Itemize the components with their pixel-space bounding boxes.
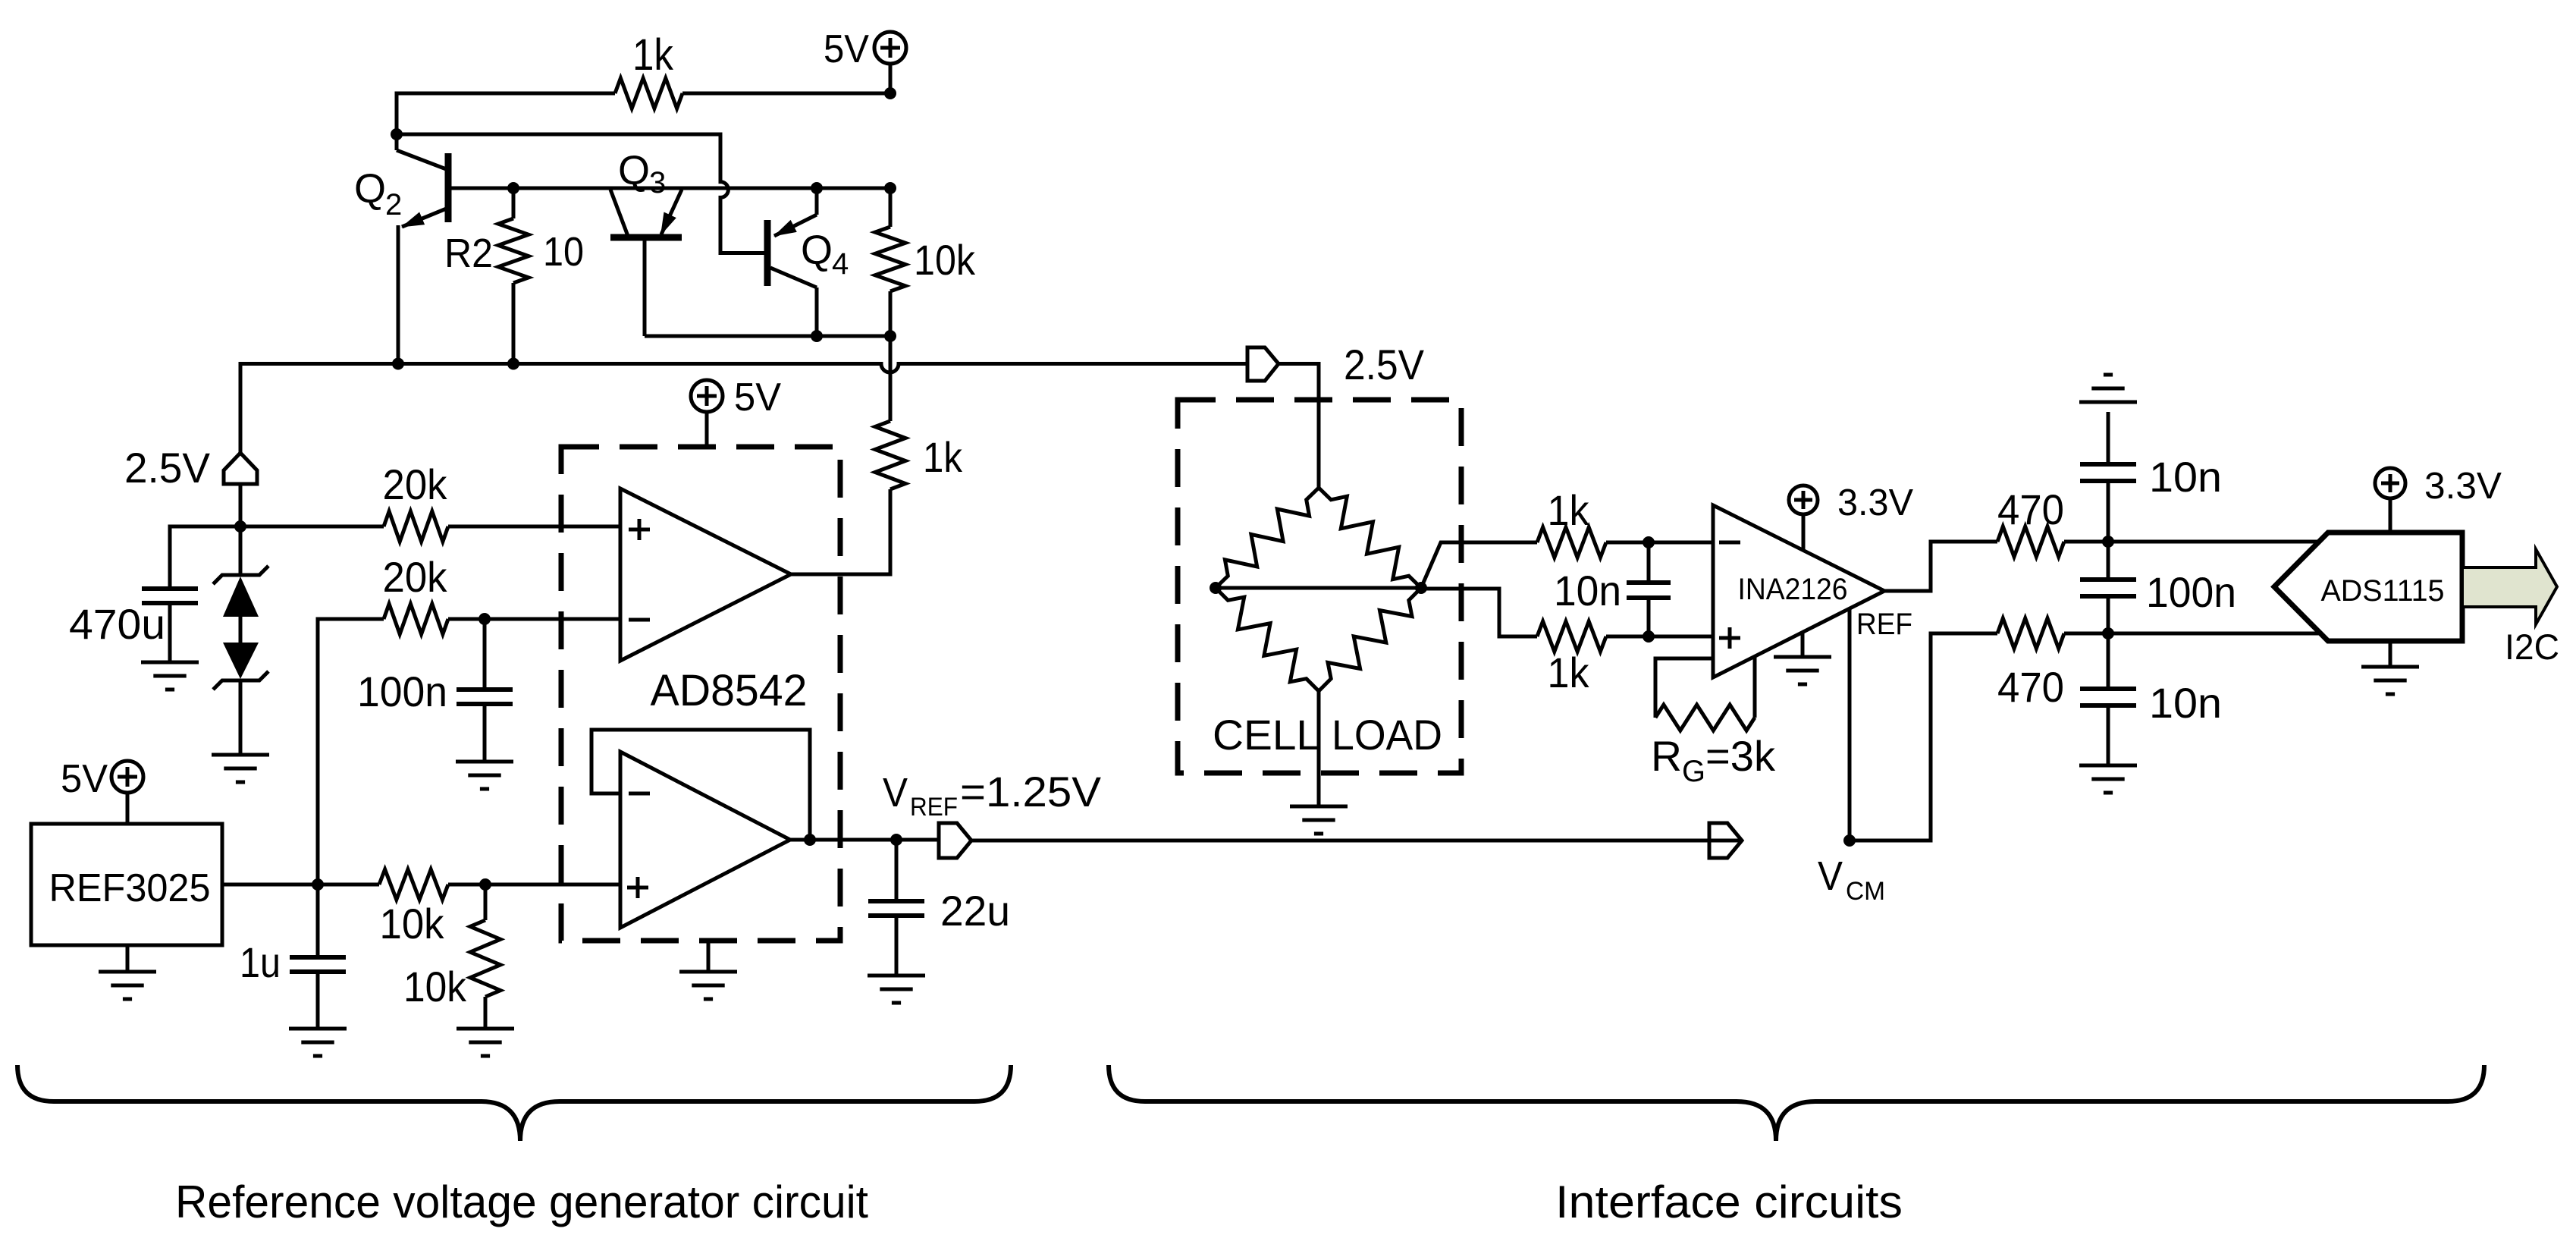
svg-text:10n: 10n — [2149, 679, 2222, 727]
ground (bridge) — [1317, 691, 1321, 806]
svg-text:22u: 22u — [940, 887, 1010, 935]
wire bridge -sense — [1421, 589, 1537, 636]
svg-text:1k: 1k — [632, 30, 674, 80]
wire top row to ADS — [2064, 540, 2320, 544]
wire U2 feedback loop — [591, 730, 810, 840]
node VCM flag — [1709, 823, 1742, 858]
svg-text:R: R — [1651, 732, 1682, 780]
wire 20k+ left lead — [240, 525, 384, 529]
wire 10k to 1k resistor through rail — [889, 336, 893, 421]
node U2 feedback junction — [804, 834, 816, 846]
wire bridge +sense diagonal — [1421, 542, 1537, 588]
svg-text:5V: 5V — [61, 757, 108, 801]
node 2.5V flag (bridge) — [1247, 347, 1279, 381]
wire Q2 emitter drop — [397, 225, 400, 364]
wire base rail y=248 — [448, 187, 890, 190]
wire to INA+ — [1606, 635, 1713, 639]
resistor 1k (bottom sense) — [1537, 621, 1606, 652]
wire REF3025 output — [222, 883, 379, 887]
power 5V supply (top) — [874, 32, 906, 64]
svg-text:CELL: CELL — [1213, 711, 1320, 759]
wire 1k bottom lead to op-amp U1 output — [791, 489, 890, 574]
node 10k bottom junction — [884, 330, 896, 342]
svg-text:2: 2 — [385, 188, 402, 222]
svg-text:CM: CM — [1846, 877, 1885, 906]
node 2.5V flag (left) — [224, 453, 257, 484]
wire 5V to box — [705, 412, 709, 447]
svg-text:20k: 20k — [383, 553, 448, 601]
IC REF3025 — [31, 824, 222, 945]
node 10n bottom — [1643, 630, 1655, 643]
wire VREF bus — [971, 839, 1709, 843]
svg-text:Q: Q — [354, 166, 386, 212]
ground (470u) — [141, 661, 199, 665]
svg-text:470: 470 — [1997, 663, 2064, 711]
resistor 10k (pull-up) — [889, 188, 893, 227]
wire Q4 emitter stem — [815, 188, 819, 215]
svg-text:5V: 5V — [734, 375, 781, 419]
arrow I2C output — [2462, 549, 2557, 624]
svg-text:AD8542: AD8542 — [651, 666, 808, 715]
ground (10k divider) — [457, 1027, 514, 1031]
wire VCM to 470 — [1709, 839, 1742, 843]
ground (100n) — [456, 760, 513, 764]
wire 20k- to op-amp — [448, 617, 620, 621]
svg-text:Interface circuits: Interface circuits — [1555, 1177, 1903, 1227]
ground (1u) — [289, 1027, 347, 1031]
transistor Q2 — [395, 134, 399, 150]
op-amp U1 (AD8542 A) — [620, 489, 791, 661]
node bridge right vertex — [1415, 582, 1427, 594]
node 10k divider junction — [479, 878, 491, 891]
power 5V supply (AD8542) — [691, 380, 723, 412]
wire flag to 20k node — [239, 484, 243, 526]
svg-text:Reference voltage generator ci: Reference voltage generator circuit — [175, 1177, 868, 1227]
svg-text:LOAD: LOAD — [1332, 711, 1442, 759]
capacitor 470u — [142, 586, 198, 591]
transistor Q4 — [764, 220, 771, 286]
resistor bridge bottom-left — [1216, 588, 1319, 691]
wire bridge center — [1216, 586, 1421, 590]
svg-text:470u: 470u — [69, 600, 165, 648]
wire bottom bus y=443 — [645, 335, 890, 338]
capacitor 1u — [316, 885, 320, 957]
node Q4 collector junction — [811, 330, 823, 342]
ground (top 10n, inverted) — [2079, 401, 2137, 404]
svg-text:1u: 1u — [240, 938, 281, 986]
zener diode pair — [239, 526, 243, 575]
wire 100n stem — [483, 619, 487, 690]
svg-text:10n: 10n — [2149, 453, 2222, 501]
svg-text:V: V — [1818, 853, 1843, 899]
svg-text:5V: 5V — [824, 27, 869, 71]
ground (INA2126) — [1801, 633, 1805, 657]
svg-text:10: 10 — [543, 229, 584, 275]
node Q2 emitter on rail — [392, 358, 404, 370]
node top filter junction — [2102, 536, 2114, 548]
resistor bridge bottom-right — [1319, 588, 1421, 691]
ground (zener) — [212, 753, 269, 757]
wire 5V to REF3025 — [126, 793, 130, 824]
node VCM junction — [1843, 834, 1856, 847]
svg-text:R2: R2 — [444, 231, 493, 276]
power 3.3V supply (INA2126) — [1789, 485, 1818, 514]
capacitor 22u — [895, 840, 899, 901]
svg-text:2.5V: 2.5V — [1344, 341, 1425, 388]
IC ADS1115 — [2274, 533, 2462, 641]
resistor 1k (top sense) — [1537, 527, 1606, 558]
capacitor 10n (differential) — [1647, 542, 1651, 583]
wire 1k row right lead — [682, 92, 890, 96]
wire 1k row left lead — [397, 93, 615, 134]
ground (bottom 10n) — [2079, 764, 2137, 768]
op-amp U3 INA2126 — [1713, 505, 1884, 677]
svg-text:G: G — [1682, 755, 1705, 788]
node junction 5V/1k — [884, 87, 896, 99]
brace interface section — [1109, 1065, 2484, 1141]
svg-text:3: 3 — [649, 166, 666, 200]
svg-text:1k: 1k — [1548, 649, 1590, 696]
resistor 470 (top) — [1997, 526, 2064, 557]
resistor 10k (series) — [379, 869, 448, 900]
svg-text:10n: 10n — [1554, 567, 1621, 614]
ground (ADS1115) — [2389, 641, 2392, 667]
node VREF flag — [939, 823, 971, 858]
svg-text:10k: 10k — [914, 236, 976, 284]
wire 2.5V rail with hop — [240, 364, 1247, 455]
wire bottom row to ADS — [2064, 632, 2321, 636]
svg-text:100n: 100n — [357, 668, 447, 715]
node 10k top junction — [884, 182, 896, 194]
svg-text:3.3V: 3.3V — [2424, 466, 2502, 507]
svg-text:2.5V: 2.5V — [124, 444, 211, 492]
dashed box CELL LOAD — [1178, 400, 1461, 773]
svg-text:I2C: I2C — [2505, 627, 2559, 667]
wire 20k- left lead — [318, 619, 384, 885]
wire flag to bridge — [1279, 364, 1319, 489]
resistor RG=3k — [1655, 658, 1713, 718]
node 22u junction — [890, 834, 902, 846]
svg-text:1k: 1k — [923, 433, 963, 481]
node R2 bottom on rail — [507, 358, 519, 370]
wire Q4 collector stem — [815, 288, 819, 336]
svg-text:Q: Q — [801, 228, 833, 273]
wire collector bus to Q3/Q4 with hop — [397, 134, 767, 253]
resistor 10k (divider) — [484, 885, 488, 920]
svg-text:4: 4 — [832, 247, 849, 281]
svg-text:470: 470 — [1997, 485, 2064, 533]
wire Q3 collector stem — [643, 237, 647, 336]
svg-text:3.3V: 3.3V — [1837, 482, 1913, 523]
node Q2 collector junction — [391, 128, 403, 140]
dashed box AD8542 — [561, 447, 840, 941]
svg-text:ADS1115: ADS1115 — [2321, 574, 2445, 608]
svg-text:REF: REF — [1856, 608, 1912, 641]
resistor 1k (top feedback) — [615, 78, 682, 108]
svg-text:10k: 10k — [403, 963, 467, 1010]
wire 470u branch — [170, 526, 240, 589]
ground (REF3025) — [126, 945, 130, 972]
resistor 20k (+input) — [384, 511, 448, 542]
node bridge left vertex — [1210, 582, 1222, 594]
svg-text:10k: 10k — [380, 900, 445, 947]
node R2 top — [507, 182, 519, 194]
ground (22u) — [868, 974, 925, 978]
wire REF pin — [1848, 608, 1852, 841]
wire to INA- — [1606, 541, 1713, 545]
capacitor 10n (bottom) — [2107, 633, 2110, 689]
svg-text:1k: 1k — [1548, 486, 1590, 534]
svg-text:=1.25V: =1.25V — [960, 768, 1102, 815]
svg-text:REF: REF — [910, 793, 958, 822]
node 10n top — [1643, 536, 1655, 548]
ground (AD8542) — [707, 941, 711, 972]
resistor 470 (bottom) — [1997, 618, 2064, 649]
wire 20k+ to op-amp — [448, 525, 620, 529]
svg-text:=3k: =3k — [1705, 732, 1776, 780]
node 20k/zener junction — [234, 520, 246, 533]
resistor bridge top-right — [1319, 488, 1421, 588]
brace reference section — [17, 1065, 1011, 1141]
op-amp U2 (AD8542 B) — [620, 752, 790, 928]
svg-text:INA2126: INA2126 — [1738, 573, 1848, 606]
node 100n junction — [478, 613, 491, 625]
capacitor 10n (top, to gnd) — [2107, 481, 2110, 542]
svg-text:20k: 20k — [383, 460, 448, 508]
svg-text:REF3025: REF3025 — [49, 866, 211, 910]
power 5V supply (REF3025) — [111, 761, 143, 793]
wire U2 output — [790, 838, 939, 842]
resistor 20k (-input) — [384, 604, 448, 634]
transistor Q3 — [610, 234, 682, 241]
capacitor 100n — [457, 687, 513, 692]
wire 10k to op-amp U2 — [448, 883, 620, 887]
node 1u junction — [312, 878, 324, 891]
resistor bridge top-left — [1216, 488, 1319, 588]
node Q4 emitter junction — [811, 182, 823, 194]
svg-text:100n: 100n — [2146, 568, 2236, 616]
svg-text:V: V — [883, 770, 908, 815]
wire 5V stem — [889, 64, 893, 93]
wire INA output — [1884, 542, 1997, 591]
capacitor 100n (differential) — [2107, 542, 2110, 580]
power 3.3V supply (ADS1115) — [2375, 468, 2405, 498]
resistor R2 10 — [512, 188, 516, 218]
resistor 1k (op-amp output) — [875, 421, 905, 489]
node bottom filter junction — [2102, 627, 2114, 639]
svg-text:Q: Q — [618, 148, 650, 193]
